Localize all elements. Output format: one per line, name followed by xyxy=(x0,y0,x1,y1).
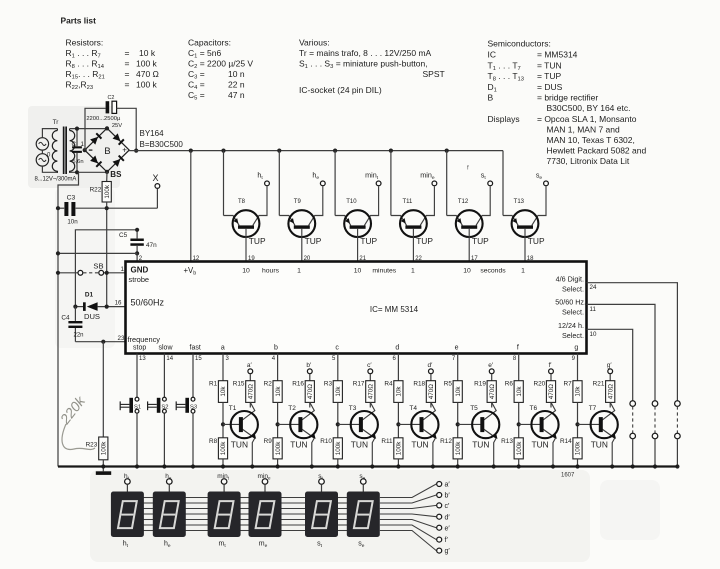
capacitor C5 xyxy=(119,228,157,256)
resistor R21 xyxy=(593,381,615,408)
svg-text:b′: b′ xyxy=(306,362,312,369)
svg-text:R15: R15 xyxy=(233,381,245,388)
svg-text:10: 10 xyxy=(242,268,250,275)
resistor R1 xyxy=(209,381,228,438)
svg-text:C2: C2 xyxy=(108,95,115,101)
svg-text:21: 21 xyxy=(359,256,366,262)
svg-text:24: 24 xyxy=(590,284,597,291)
svg-text:R7: R7 xyxy=(564,381,573,388)
svg-text:= TUN: = TUN xyxy=(537,61,562,71)
terminal mine xyxy=(420,171,437,186)
svg-text:5,6n: 5,6n xyxy=(72,159,83,165)
7-segment display se xyxy=(347,492,380,538)
resistor R9 xyxy=(264,438,283,469)
svg-text:MAN 1, MAN 7 and: MAN 1, MAN 7 and xyxy=(547,125,620,135)
wire pin10 12/24h select jumper column xyxy=(587,329,636,468)
svg-text:100k: 100k xyxy=(455,441,462,456)
wire secondary top rail xyxy=(70,128,107,130)
svg-text:B=B30C500: B=B30C500 xyxy=(140,140,184,149)
svg-text:47 n: 47 n xyxy=(228,90,245,100)
svg-text:minutes: minutes xyxy=(372,268,396,275)
svg-text:c′: c′ xyxy=(367,362,372,369)
svg-text:d′: d′ xyxy=(427,362,433,369)
resistor R22 xyxy=(90,172,112,307)
svg-text:10k: 10k xyxy=(335,386,342,397)
svg-text:b: b xyxy=(274,344,278,351)
AC mains source upper xyxy=(36,138,48,150)
svg-text:470Ω: 470Ω xyxy=(428,384,435,400)
transistor T2 (TUN) xyxy=(278,402,318,468)
svg-text:10 k: 10 k xyxy=(139,48,156,58)
svg-text:10n: 10n xyxy=(67,219,78,226)
svg-text:seconds: seconds xyxy=(480,268,506,275)
resistor R7 xyxy=(564,381,583,438)
terminal f′ (display side) xyxy=(437,537,449,544)
svg-text:= Opcoa SLA 1, Monsanto: = Opcoa SLA 1, Monsanto xyxy=(537,114,637,124)
svg-text:SB: SB xyxy=(93,262,103,271)
svg-text:a′: a′ xyxy=(445,482,451,489)
svg-text:T2: T2 xyxy=(288,405,296,412)
svg-text:22 n: 22 n xyxy=(228,80,245,90)
svg-text:10k: 10k xyxy=(275,386,282,397)
IC segment letters a-g xyxy=(221,344,579,351)
transistor T12 (TUP) xyxy=(447,151,491,262)
terminal display drive ht xyxy=(124,473,130,492)
svg-text:frequency: frequency xyxy=(128,335,161,344)
terminal mint xyxy=(365,171,381,186)
wire pin11 50/60Hz select jumper column xyxy=(587,304,658,468)
svg-text:S2: S2 xyxy=(161,405,168,411)
svg-text:10k: 10k xyxy=(396,386,403,397)
svg-text:= TUP: = TUP xyxy=(537,71,562,81)
resistor R18 xyxy=(413,381,435,408)
svg-text:470 Ω: 470 Ω xyxy=(136,69,159,79)
svg-text:R5: R5 xyxy=(444,381,453,388)
svg-text:18: 18 xyxy=(527,256,534,262)
IC internal labels top row xyxy=(184,266,526,277)
svg-text:C3: C3 xyxy=(67,194,76,201)
svg-text:SPST: SPST xyxy=(423,69,445,79)
svg-text:1: 1 xyxy=(521,268,525,275)
svg-text:100k: 100k xyxy=(335,441,342,456)
svg-text:8...12V~/300mA: 8...12V~/300mA xyxy=(35,177,77,183)
diode D1 xyxy=(73,291,125,321)
svg-text:470Ω: 470Ω xyxy=(489,384,496,400)
resistor R20 xyxy=(533,381,555,408)
svg-text:R9: R9 xyxy=(264,438,273,445)
svg-text:R11: R11 xyxy=(381,438,393,445)
svg-text:=: = xyxy=(125,59,130,69)
transistor T4 (TUN) xyxy=(398,402,438,468)
svg-text:Select.: Select. xyxy=(562,285,584,294)
switch S2 xyxy=(148,354,174,469)
switch S3 xyxy=(176,354,202,469)
IC right side select labels xyxy=(555,275,586,341)
bridge diode bottom-right xyxy=(113,155,125,167)
transformer secondary winding xyxy=(70,129,75,173)
svg-text:BS: BS xyxy=(110,170,122,179)
svg-text:g′: g′ xyxy=(607,362,613,369)
svg-text:25V: 25V xyxy=(112,123,122,129)
svg-text:C5: C5 xyxy=(119,232,128,239)
terminal display drive he xyxy=(165,473,172,492)
7-segment display st xyxy=(305,492,338,538)
transistor T9 (TUP) xyxy=(279,151,323,262)
resistor R8 xyxy=(209,438,228,469)
svg-text:R12: R12 xyxy=(440,438,452,445)
svg-text:Resistors:: Resistors: xyxy=(66,38,104,48)
transistor T13 (TUP) xyxy=(503,151,546,262)
switch SB xyxy=(56,262,126,275)
svg-text:Tr = mains trafo, 8 . . . 12V/: Tr = mains trafo, 8 . . . 12V/250 mA xyxy=(299,48,432,58)
svg-text:T11: T11 xyxy=(402,199,413,205)
svg-text:50/60Hz: 50/60Hz xyxy=(131,298,165,308)
svg-text:R20: R20 xyxy=(533,381,545,388)
svg-text:stop: stop xyxy=(133,345,146,352)
svg-text:R8: R8 xyxy=(209,438,218,445)
resistor R4 xyxy=(384,381,403,438)
svg-text:R21: R21 xyxy=(593,381,605,388)
svg-text:1: 1 xyxy=(297,268,301,275)
svg-text:12/24 h.: 12/24 h. xyxy=(558,321,584,330)
resistor R16 xyxy=(292,381,314,408)
svg-text:10k: 10k xyxy=(220,386,227,397)
svg-text:Tr: Tr xyxy=(53,119,60,126)
capacitor C4 xyxy=(61,307,83,342)
svg-text:470Ω: 470Ω xyxy=(548,384,555,400)
IC pin number labels top xyxy=(139,256,534,262)
terminal display drive mint xyxy=(217,473,229,492)
svg-text:f: f xyxy=(517,344,519,351)
svg-text:T3: T3 xyxy=(349,405,357,412)
svg-text:12: 12 xyxy=(193,256,200,262)
svg-text:c: c xyxy=(335,344,339,351)
resistor R14 xyxy=(560,438,582,469)
terminal b′ xyxy=(306,362,312,381)
transistor T6 (TUN) xyxy=(519,402,559,468)
ground bus xyxy=(58,465,677,467)
resistor R17 xyxy=(353,381,375,408)
svg-text:TUP: TUP xyxy=(528,236,545,246)
svg-text:C4: C4 xyxy=(61,314,70,321)
wire AC bottom to primary xyxy=(42,166,57,172)
svg-text:=: = xyxy=(125,80,130,90)
wire segment b column xyxy=(272,354,278,381)
svg-text:T4: T4 xyxy=(409,405,417,412)
svg-text:d′: d′ xyxy=(445,514,451,521)
svg-text:B: B xyxy=(488,93,494,103)
svg-text:TUN: TUN xyxy=(411,440,428,450)
svg-text:R10: R10 xyxy=(320,438,332,445)
terminal c′ xyxy=(367,362,373,381)
svg-text:fast: fast xyxy=(190,345,201,352)
svg-text:IC= MM 5314: IC= MM 5314 xyxy=(370,305,419,314)
svg-text:se​: se​ xyxy=(359,473,365,481)
transistor T5 (TUN) xyxy=(458,402,500,468)
svg-text:R16: R16 xyxy=(292,381,304,388)
svg-text:100k: 100k xyxy=(275,441,282,456)
svg-text:= bridge rectifier: = bridge rectifier xyxy=(537,93,598,103)
svg-text:st​: st​ xyxy=(318,473,323,481)
svg-text:=: = xyxy=(125,69,130,79)
capacitor C1 xyxy=(72,127,85,175)
wire C5 branch xyxy=(75,230,137,307)
svg-text:X: X xyxy=(152,173,158,183)
transistor T11 (TUP) xyxy=(391,151,435,262)
svg-text:7730, Litronix Data Lit: 7730, Litronix Data Lit xyxy=(547,156,630,166)
svg-text:TUP: TUP xyxy=(360,236,377,246)
ground hook from secondary low xyxy=(58,172,79,466)
transistor T10 (TUP) xyxy=(335,151,379,262)
svg-text:10: 10 xyxy=(463,268,471,275)
resistor R15 xyxy=(233,381,255,408)
bridge rectifier B xyxy=(83,126,130,179)
svg-text:hours: hours xyxy=(262,268,280,275)
svg-text:T7: T7 xyxy=(589,405,597,412)
transformer core xyxy=(63,127,65,175)
svg-text:R23: R23 xyxy=(86,442,98,449)
svg-text:a′: a′ xyxy=(247,362,253,369)
svg-text:10k: 10k xyxy=(455,386,462,397)
resistor R19 xyxy=(474,381,496,408)
svg-text:14: 14 xyxy=(166,356,173,362)
svg-text:R13: R13 xyxy=(501,438,513,445)
resistor R6 xyxy=(505,381,524,438)
svg-text:T10: T10 xyxy=(346,199,357,205)
svg-text:100k: 100k xyxy=(396,441,403,456)
7-segment display ht xyxy=(111,492,144,538)
svg-text:BY164: BY164 xyxy=(140,129,165,138)
svg-text:GND: GND xyxy=(131,266,149,275)
wire secondary bottom rail xyxy=(70,171,107,173)
svg-text:TUN: TUN xyxy=(290,440,307,450)
svg-text:11: 11 xyxy=(590,306,597,313)
terminal a′ xyxy=(247,362,253,381)
capacitor C3 xyxy=(56,194,157,225)
terminal se xyxy=(536,171,549,186)
svg-text:e′: e′ xyxy=(445,525,451,532)
terminal c′ (display side) xyxy=(437,503,450,510)
svg-text:20: 20 xyxy=(304,256,311,262)
svg-text:T9: T9 xyxy=(294,199,302,205)
wire segment e column xyxy=(452,354,458,381)
svg-text:4/6 Digit.: 4/6 Digit. xyxy=(556,275,584,284)
svg-text:MAN 10, Texas T 6302,: MAN 10, Texas T 6302, xyxy=(547,135,635,145)
svg-text:e: e xyxy=(455,344,459,351)
svg-text:DUS: DUS xyxy=(84,312,100,321)
svg-text:e′: e′ xyxy=(488,362,494,369)
resistor R10 xyxy=(320,438,342,469)
svg-text:g′: g′ xyxy=(445,548,451,555)
svg-text:T8: T8 xyxy=(238,199,246,205)
svg-text:Parts list: Parts list xyxy=(61,16,97,26)
terminal b′ (display side) xyxy=(437,493,451,500)
pencil annotation 220k xyxy=(56,392,95,449)
svg-text:TUP: TUP xyxy=(305,236,322,246)
svg-text:15: 15 xyxy=(195,356,202,362)
svg-text:T5: T5 xyxy=(470,405,478,412)
terminal d′ xyxy=(427,362,433,381)
terminal ht xyxy=(257,171,269,186)
svg-text:1: 1 xyxy=(121,266,125,273)
svg-text:13: 13 xyxy=(139,356,146,362)
svg-text:Hewlett Packard 5082 and: Hewlett Packard 5082 and xyxy=(547,146,647,156)
7-segment display he xyxy=(153,492,186,538)
svg-text:470Ω: 470Ω xyxy=(307,384,314,400)
svg-text:ht​: ht​ xyxy=(124,473,130,481)
bridge diode top-right xyxy=(113,133,125,145)
resistor R13 xyxy=(501,438,523,469)
op-amp: IC MM5314 box xyxy=(126,262,587,354)
svg-text:1607: 1607 xyxy=(561,473,575,479)
terminal f′ xyxy=(548,362,553,381)
svg-text:19: 19 xyxy=(248,256,255,262)
svg-text:10 n: 10 n xyxy=(228,69,245,79)
svg-text:slow: slow xyxy=(159,345,174,352)
transistor T8 (TUP) xyxy=(224,151,268,262)
bridge diode top-left xyxy=(90,133,102,145)
svg-text:T12: T12 xyxy=(458,199,469,205)
svg-text:1: 1 xyxy=(411,268,415,275)
svg-text:1: 1 xyxy=(81,141,85,148)
terminal g′ (display side) xyxy=(437,548,451,555)
parts list resistors column xyxy=(66,38,159,92)
resistor R3 xyxy=(324,381,343,438)
terminal display drive st xyxy=(318,473,324,492)
wire gnd to pin2 xyxy=(58,252,137,254)
wire segment fan-out xyxy=(380,484,437,551)
switch S1 xyxy=(120,354,146,469)
svg-text:100k: 100k xyxy=(516,441,523,456)
svg-text:S3: S3 xyxy=(190,405,197,411)
parts list capacitors column xyxy=(188,38,253,102)
resistor R5 xyxy=(444,381,463,438)
terminal display drive mine xyxy=(258,473,271,492)
capacitor C2 electrolytic xyxy=(85,95,138,153)
svg-text:=: = xyxy=(125,48,130,58)
terminal e′ (display side) xyxy=(437,525,451,532)
AC mains source lower xyxy=(36,154,48,166)
svg-text:R17: R17 xyxy=(353,381,365,388)
svg-text:a: a xyxy=(221,344,225,351)
svg-text:= DUS: = DUS xyxy=(537,82,563,92)
wire pin24 4/6 digit select jumper column xyxy=(587,283,681,469)
svg-text:100k: 100k xyxy=(101,441,108,456)
terminal display drive se xyxy=(359,473,366,492)
svg-text:22: 22 xyxy=(415,256,422,262)
wire +Vb bus xyxy=(129,150,503,152)
7-segment display me xyxy=(249,492,282,538)
svg-text:2200...2500µ: 2200...2500µ xyxy=(86,116,121,122)
svg-text:c′: c′ xyxy=(445,503,451,510)
svg-text:R14: R14 xyxy=(560,438,572,445)
wire pin2 stub xyxy=(136,253,138,261)
7-segment display mt xyxy=(208,492,241,538)
svg-text:TUN: TUN xyxy=(231,440,248,450)
terminal st xyxy=(481,171,493,186)
svg-text:R22: R22 xyxy=(90,186,102,193)
svg-text:IC-socket (24 pin DIL): IC-socket (24 pin DIL) xyxy=(299,85,382,95)
svg-text:R19: R19 xyxy=(474,381,486,388)
parts list various column xyxy=(299,38,445,96)
svg-text:B: B xyxy=(104,146,110,157)
svg-text:47n: 47n xyxy=(146,242,157,249)
svg-text:10k: 10k xyxy=(575,386,582,397)
svg-text:16: 16 xyxy=(115,299,122,306)
svg-text:= MM5314: = MM5314 xyxy=(537,50,578,60)
svg-text:T6: T6 xyxy=(530,405,538,412)
svg-text:g: g xyxy=(574,344,578,351)
wire display segment interconnects xyxy=(143,498,348,531)
svg-text:R3: R3 xyxy=(324,381,333,388)
resistor R2 xyxy=(264,381,283,438)
svg-text:d: d xyxy=(395,344,399,351)
bridge diode bottom-left xyxy=(90,156,102,168)
svg-text:470Ω: 470Ω xyxy=(248,384,255,400)
svg-text:Select.: Select. xyxy=(562,331,584,340)
svg-text:R1: R1 xyxy=(209,381,218,388)
svg-text:50/60 Hz.: 50/60 Hz. xyxy=(555,298,586,307)
transistor T7 (TUN) xyxy=(578,402,618,468)
svg-text:b′: b′ xyxy=(445,493,451,500)
svg-text:100k: 100k xyxy=(104,184,111,199)
terminal g′ xyxy=(607,362,613,381)
parts list semiconductors column xyxy=(488,39,647,167)
svg-text:TUN: TUN xyxy=(532,440,549,450)
wire segment g column xyxy=(572,354,578,381)
svg-text:R18: R18 xyxy=(413,381,425,388)
svg-text:470Ω: 470Ω xyxy=(607,384,614,400)
wire segment f column xyxy=(513,354,519,381)
svg-text:100 k: 100 k xyxy=(136,59,158,69)
svg-text:D1: D1 xyxy=(85,291,94,298)
svg-text:S1​ . . . S3​ = miniature push: S1​ . . . S3​ = miniature push-button, xyxy=(299,59,428,71)
terminal a′ (display side) xyxy=(437,482,451,489)
wire pin12 column xyxy=(190,151,192,262)
transistor T1 (TUN) xyxy=(223,402,258,468)
svg-text:TUN: TUN xyxy=(591,440,608,450)
svg-text:B30C500, BY 164 etc.: B30C500, BY 164 etc. xyxy=(547,103,631,113)
ground symbol xyxy=(96,471,111,475)
svg-text:100k: 100k xyxy=(575,441,582,456)
svg-text:23: 23 xyxy=(118,335,125,342)
terminal he xyxy=(312,171,325,186)
wire segment c column xyxy=(332,354,338,381)
terminal e′ xyxy=(488,362,494,381)
svg-text:10k: 10k xyxy=(516,386,523,397)
transistor T3 (TUN) xyxy=(338,402,378,468)
svg-text:Various:: Various: xyxy=(299,38,330,48)
resistor R11 xyxy=(381,438,403,469)
svg-text:TUP: TUP xyxy=(416,236,433,246)
svg-text:R6: R6 xyxy=(505,381,514,388)
svg-text:R2: R2 xyxy=(264,381,273,388)
svg-text:100k: 100k xyxy=(220,441,227,456)
svg-text:10: 10 xyxy=(354,268,362,275)
svg-text:Semiconductors:: Semiconductors: xyxy=(488,39,551,49)
terminal d′ (display side) xyxy=(437,514,451,521)
wire to pin23 xyxy=(75,341,125,343)
svg-text:S1: S1 xyxy=(134,405,141,411)
svg-text:C: C xyxy=(72,141,77,148)
wire segment d column xyxy=(393,354,399,381)
svg-text:TUN: TUN xyxy=(351,440,368,450)
svg-text:+: + xyxy=(122,146,127,155)
resistor R12 xyxy=(440,438,462,469)
node 0 (between AC sources) xyxy=(41,150,43,153)
svg-text:100 k: 100 k xyxy=(136,80,158,90)
svg-text:T13: T13 xyxy=(514,199,525,205)
